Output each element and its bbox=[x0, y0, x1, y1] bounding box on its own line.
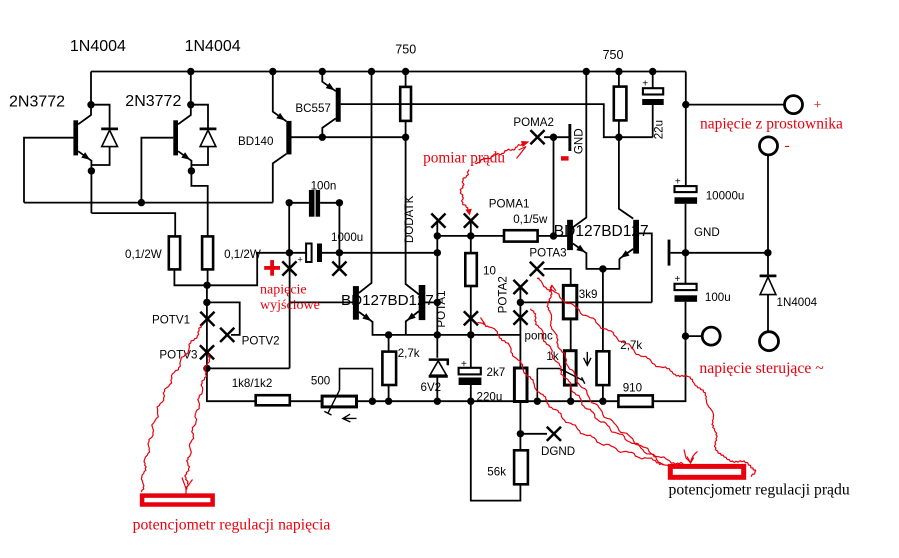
svg-text:BC557: BC557 bbox=[295, 102, 330, 115]
wire Q8 base row to right column bbox=[639, 233, 652, 302]
wire GND row to minus column bbox=[686, 252, 768, 254]
ground symbol GND right bar bbox=[668, 240, 671, 266]
svg-text:+: + bbox=[675, 274, 681, 285]
red curve left 1 bbox=[141, 325, 202, 492]
potentiometer 500 wiper diagonal bbox=[328, 390, 340, 413]
wire 2,7k left leads bbox=[388, 335, 390, 401]
junction dot bottom bus at 220u bbox=[467, 398, 474, 405]
wire 100n right loop bbox=[320, 203, 339, 269]
wire 1k wiper diagonal bbox=[537, 369, 583, 381]
svg-text:POTA2: POTA2 bbox=[497, 276, 510, 313]
wire 10000u bottom lead bbox=[685, 204, 687, 253]
transistor Q5 BD127 pair1 left bar bbox=[353, 286, 359, 320]
wire POMA2 column down bbox=[553, 137, 555, 236]
wire output plus column vertical bbox=[289, 253, 291, 369]
node 100n left bbox=[286, 199, 293, 206]
svg-text:2,7k: 2,7k bbox=[398, 347, 420, 360]
svg-text:pomiar prądu: pomiar prądu bbox=[423, 149, 505, 166]
wire 750 left leads bbox=[405, 72, 407, 138]
potentiometer symbol red rect right bbox=[670, 466, 743, 477]
svg-text:+: + bbox=[298, 255, 303, 265]
terminal X POTA3 bbox=[530, 262, 544, 276]
wire output row y253 bbox=[289, 252, 437, 254]
svg-text:1000u: 1000u bbox=[331, 231, 363, 244]
resistor 2,7k left bbox=[382, 352, 396, 385]
red curve right 1 bbox=[483, 324, 664, 465]
svg-text:BD140: BD140 bbox=[238, 135, 273, 148]
terminal X POTA2 bbox=[513, 280, 527, 294]
wire bottom bus bbox=[357, 400, 619, 402]
node POTV bottom bbox=[203, 365, 210, 372]
svg-text:+: + bbox=[814, 98, 822, 113]
node 750 left bottom bbox=[402, 134, 409, 141]
wire base bus y203 bbox=[24, 202, 273, 204]
wire Q3 BD140 collector bbox=[273, 154, 287, 203]
diode D1 1N4004 bbox=[101, 128, 118, 131]
wire Q2 base bbox=[141, 138, 173, 203]
junction dot DODATK at base row bbox=[434, 299, 441, 306]
svg-text:POTV3: POTV3 bbox=[159, 349, 197, 362]
capacitor 22u bbox=[643, 88, 663, 94]
svg-text:DODATK: DODATK bbox=[403, 195, 416, 243]
resistor 0,1/2W left bbox=[169, 236, 180, 269]
wire POTV column bbox=[206, 285, 208, 368]
transistor Q2 2N3772 collector wire bbox=[178, 72, 191, 125]
wire 2k7 bottom column bbox=[519, 402, 521, 451]
red curve right 1b from 3k9 bbox=[547, 285, 683, 464]
svg-text:1N4004: 1N4004 bbox=[70, 38, 126, 55]
red plus big output bbox=[264, 266, 280, 270]
wire vertical bus to BD127 pair2 left collector bbox=[573, 72, 586, 228]
wire GND bar to node bbox=[670, 252, 685, 254]
node collector Q1 bbox=[87, 101, 94, 108]
node GND right bbox=[682, 249, 689, 256]
node emitter pair2 bbox=[599, 265, 606, 272]
terminal X POTV2 bbox=[220, 328, 234, 342]
svg-text:1N4004: 1N4004 bbox=[777, 296, 818, 309]
resistor 2k7 bbox=[514, 368, 527, 402]
junction dot emitter bus at 2,7k left bbox=[385, 331, 392, 338]
wire 1k wiper to bottom bus bbox=[536, 369, 538, 402]
svg-text:10: 10 bbox=[483, 265, 496, 278]
node 1000u right bbox=[336, 249, 343, 256]
terminal X POTV1 bbox=[200, 312, 214, 326]
svg-text:potencjometr regulacji napięci: potencjometr regulacji napięcia bbox=[133, 516, 331, 533]
svg-text:GND: GND bbox=[694, 226, 720, 239]
wire POTA2 column bbox=[519, 287, 521, 368]
terminal circle minus napiecie z prostownika bbox=[760, 137, 778, 155]
diode D2 bottom lead wire bbox=[191, 147, 208, 165]
node minus column at GND row bbox=[764, 249, 771, 256]
node base BD127 pair2 left bbox=[550, 232, 557, 239]
diode D1 bottom lead wire bbox=[91, 147, 109, 165]
resistor 0,1/2W right bbox=[202, 236, 213, 269]
terminal X POMA2 bbox=[530, 130, 544, 144]
svg-text:750: 750 bbox=[603, 48, 624, 62]
junction dot bus above Q2 bbox=[187, 68, 194, 75]
svg-text:pomc: pomc bbox=[525, 330, 554, 343]
red curve left 2 bbox=[185, 354, 210, 490]
terminal X output plus bbox=[282, 261, 296, 275]
svg-text:napięcie sterujące ~: napięcie sterujące ~ bbox=[699, 360, 824, 377]
junction dot bottom bus at 1k wiper bbox=[534, 398, 541, 405]
resistor 750 left bbox=[400, 87, 411, 121]
arrow down beside 1k bbox=[584, 352, 591, 365]
svg-text:500: 500 bbox=[311, 375, 330, 388]
transistor Q4 BC557 bar bbox=[336, 88, 341, 122]
potentiometer 500 body bbox=[322, 396, 356, 407]
junction dot 750 right bottom bbox=[615, 134, 622, 141]
junction dot DODATK at POMA1 row bbox=[434, 232, 441, 239]
svg-text:potencjometr regulacji prądu: potencjometr regulacji prądu bbox=[669, 482, 850, 499]
node napiecie sterujace bbox=[682, 332, 689, 339]
capacitor 100n bbox=[309, 190, 315, 217]
svg-text:GND: GND bbox=[573, 128, 586, 154]
ground symbol GND left bar bbox=[568, 124, 571, 151]
terminal circle plus napiecie z prostownika bbox=[785, 96, 803, 114]
zener diode 6V2 bbox=[429, 360, 448, 366]
svg-text:2N3772: 2N3772 bbox=[9, 94, 65, 111]
diode D3 1N4004 bbox=[760, 275, 777, 278]
wire diode to circle B bbox=[767, 295, 769, 332]
wire Q2 emitter column and jog bbox=[191, 160, 207, 236]
svg-text:+: + bbox=[461, 359, 467, 370]
transistor Q4 BC557 emitter wire with arrow bbox=[322, 72, 336, 92]
red minus mark at GND left bbox=[561, 156, 569, 160]
svg-text:0,1/2W: 0,1/2W bbox=[224, 248, 261, 261]
node POTV top bbox=[203, 299, 210, 306]
wire 910 right to sterujace node bbox=[653, 302, 686, 401]
svg-text:0,1/5w: 0,1/5w bbox=[513, 213, 548, 226]
svg-text:2k7: 2k7 bbox=[487, 366, 506, 379]
terminal X DODATK bbox=[431, 214, 445, 228]
wire to circle A bbox=[686, 335, 703, 337]
transistor Q2 2N3772 bar bbox=[173, 120, 178, 155]
wire Q1 base to left rail bbox=[24, 138, 73, 203]
node emitter Q2 bbox=[188, 167, 195, 174]
svg-text:750: 750 bbox=[395, 43, 416, 57]
wire Q6 emitter vertical bbox=[405, 321, 407, 335]
svg-text:2N3772: 2N3772 bbox=[125, 93, 181, 110]
junction dot DODATK at output row bbox=[434, 249, 441, 256]
junction dot bus corner node bbox=[682, 101, 689, 108]
wire DODATK column upper bbox=[436, 221, 438, 358]
capacitor 1000u bbox=[306, 244, 312, 263]
wire base BD127 pair1 right bbox=[425, 301, 438, 303]
wire POMA2 to GND symbol bbox=[544, 136, 570, 138]
junction dot base bus / Q2 base bbox=[138, 199, 145, 206]
transistor Q3 BD140 emitter wire with arrow bbox=[273, 72, 287, 122]
transistor Q1 emitter wire with arrow bbox=[78, 151, 91, 161]
wire Q5 emitter with arrow bbox=[359, 312, 373, 322]
node 100n right bbox=[336, 199, 343, 206]
svg-text:3k9: 3k9 bbox=[579, 288, 598, 301]
transistor Q8 BD127 pair2 right bar bbox=[633, 220, 639, 254]
junction dot bus above 750 left bbox=[402, 68, 409, 75]
resistor 0,1/5w bbox=[504, 230, 538, 241]
red curve right 3 bbox=[537, 278, 756, 476]
junction dot bottom bus at 500 wiper bbox=[369, 398, 376, 405]
potentiometer symbol red rect left bbox=[142, 496, 213, 505]
terminal X POMA1 bbox=[464, 214, 478, 228]
node emitter Q1 bbox=[88, 167, 95, 174]
terminal X POTV3 bbox=[200, 345, 214, 359]
terminal X DGND bbox=[547, 427, 561, 441]
transistor Q3 BD140 bar bbox=[286, 121, 291, 154]
wire Q7 emitter with arrow bbox=[573, 244, 587, 254]
svg-text:1k8/1k2: 1k8/1k2 bbox=[232, 377, 273, 390]
junction dot bus at long vertical bbox=[368, 68, 375, 75]
terminal circle napiecie sterujace A bbox=[702, 327, 720, 345]
terminal X pomc bbox=[513, 311, 527, 325]
wire POMA1 column upper bbox=[470, 221, 472, 254]
svg-text:0,1/2W: 0,1/2W bbox=[125, 248, 162, 261]
junction dot bottom bus at 1k pot bbox=[567, 398, 574, 405]
diode D1 1N4004 top lead wire bbox=[91, 105, 110, 128]
terminal X POTA1 bbox=[464, 311, 478, 325]
junction dot bus above 750 right bbox=[615, 68, 622, 75]
red arrow to DODATK X bbox=[460, 169, 468, 210]
diode D2 1N4004 bbox=[200, 128, 217, 131]
resistor 750 right bbox=[614, 87, 627, 121]
junction dot bus above 22u bbox=[649, 68, 656, 75]
wire Q1 emitter column bbox=[90, 160, 92, 213]
wire POTV bottom row to output column bbox=[207, 367, 290, 369]
wire 750 right leads bbox=[618, 72, 620, 138]
junction dot bus at BD127 pair2 collector bbox=[583, 68, 590, 75]
junction dot DODATK at emitter bus bbox=[434, 331, 441, 338]
capacitor 220u bbox=[459, 368, 481, 375]
wire BC557 base crossing 750 body bbox=[399, 103, 413, 105]
wire 0,1/5w right lead bbox=[538, 235, 554, 237]
junction dot bottom bus at 2,7k left bbox=[385, 398, 392, 405]
node collector Q2 bbox=[187, 101, 194, 108]
transistor Q6 BD127 pair1 right bar bbox=[419, 285, 426, 320]
svg-text:56k: 56k bbox=[487, 466, 506, 479]
junction dot POMA1 row bbox=[467, 232, 474, 239]
wire 750 right node down to BD127 pair2 right collector bbox=[619, 137, 633, 218]
wire zener bottom lead bbox=[436, 376, 438, 401]
wire 100n left loop bbox=[289, 203, 309, 253]
svg-text:POTA3: POTA3 bbox=[529, 247, 566, 260]
svg-text:1N4004: 1N4004 bbox=[185, 38, 241, 55]
transistor Q1 2N3772 collector wire bbox=[78, 72, 91, 125]
wire 1k bottom lead bbox=[570, 385, 572, 401]
node resistor bottom junction bbox=[203, 282, 210, 289]
wire base BD127 pair2 left bbox=[554, 235, 568, 237]
wire BC557 base long row bbox=[341, 104, 653, 137]
junction dot bottom bus at zener bbox=[434, 398, 441, 405]
svg-text:910: 910 bbox=[623, 382, 642, 395]
wire 220u bottom loop to 56k bottom bbox=[471, 401, 521, 500]
svg-text:POTV1: POTV1 bbox=[152, 313, 190, 326]
node BC557 collector / BD140 base bbox=[319, 134, 326, 141]
wire POTV column to bottom bus bbox=[207, 368, 256, 401]
wire emitter bus pair2 bbox=[586, 252, 619, 269]
resistor 3k9 bbox=[563, 285, 577, 319]
wire to DGND terminal bbox=[520, 433, 547, 435]
svg-text:POTA1: POTA1 bbox=[435, 290, 448, 327]
wire minus column bbox=[767, 155, 769, 275]
wire POTA2 row to BD127 pair2 right base bbox=[520, 301, 651, 303]
capacitor 100u bbox=[675, 284, 697, 290]
junction dot bus above BC557 bbox=[319, 68, 326, 75]
transistor Q7 BD127 pair2 left bar bbox=[567, 220, 573, 250]
svg-text:wyjściowe: wyjściowe bbox=[260, 298, 320, 313]
wire Q1 emitter jog to resistor bbox=[91, 213, 175, 236]
svg-text:POMA1: POMA1 bbox=[489, 198, 530, 211]
terminal X output minus bbox=[332, 262, 346, 276]
node output plus bbox=[286, 249, 293, 256]
potentiometer 1k body bbox=[564, 351, 576, 385]
wire 100u top lead bbox=[685, 253, 687, 284]
svg-text:napięcie z prostownika: napięcie z prostownika bbox=[700, 115, 843, 132]
wire bus right corner down to 10000u bbox=[685, 72, 687, 187]
wire base BD127 pair1 left bbox=[290, 301, 356, 303]
wire Q8 emitter with arrow bbox=[619, 249, 633, 259]
svg-text:220u: 220u bbox=[477, 390, 503, 403]
wire node to output plus column bbox=[207, 253, 289, 285]
svg-text:2,7k: 2,7k bbox=[620, 339, 642, 352]
svg-text:22u: 22u bbox=[652, 120, 665, 139]
svg-text:+: + bbox=[642, 79, 648, 90]
svg-text:+: + bbox=[675, 176, 681, 187]
wire Q5 emitter corner to emitter bus bbox=[373, 321, 521, 335]
red small arrow right rect bbox=[684, 450, 691, 463]
resistor 910 bbox=[618, 395, 652, 407]
svg-text:POTV2: POTV2 bbox=[242, 335, 280, 348]
wire POMA1 row bbox=[437, 235, 504, 237]
transistor Q1 2N3772 bar bbox=[73, 120, 78, 155]
transistor Q2 emitter wire with arrow bbox=[178, 151, 191, 161]
red arrow to POMA2 bbox=[475, 145, 525, 164]
wire 2,7k right leads bbox=[602, 269, 604, 401]
resistor 10 bbox=[465, 253, 477, 286]
wire resistor bottoms join bbox=[174, 269, 207, 285]
wire POTA2 row crossing 3k9 body bbox=[562, 301, 579, 303]
wire POTV2 branch loop bbox=[207, 302, 240, 335]
wire 500 wiper to bottom bus bbox=[340, 369, 373, 402]
junction dot bottom bus at 2,7k right bbox=[599, 398, 606, 405]
resistor 1k8/1k2 bbox=[256, 395, 290, 405]
top power bus wire bbox=[91, 71, 686, 73]
svg-text:POMA2: POMA2 bbox=[513, 116, 554, 129]
diode D2 1N4004 top lead wire bbox=[191, 105, 208, 128]
terminal circle napiecie sterujace B bbox=[760, 332, 779, 351]
resistor 2,7k right bbox=[597, 351, 610, 385]
node POMA2 bbox=[550, 134, 557, 141]
resistor 56k bbox=[514, 450, 528, 484]
svg-text:-: - bbox=[785, 138, 790, 154]
wire 1k8 to 500 pot bbox=[290, 400, 322, 402]
wire Q4 BC557 collector bbox=[322, 118, 336, 137]
wire 3k9 to 1k pot bbox=[570, 319, 572, 351]
svg-text:DGND: DGND bbox=[541, 445, 575, 458]
wire Q6 emitter with arrow bbox=[406, 311, 419, 321]
wire 10 bottom to bus bbox=[470, 286, 472, 335]
wire 220u leads bbox=[470, 335, 472, 401]
svg-text:100n: 100n bbox=[311, 179, 337, 192]
svg-text:napięcie: napięcie bbox=[260, 282, 307, 297]
wire 22u leads bbox=[652, 72, 654, 138]
svg-text:100u: 100u bbox=[705, 291, 731, 304]
red small arrow left rect bbox=[182, 478, 193, 500]
wire long vertical to BD127 pair1 left collector bbox=[359, 72, 372, 293]
red curve right 2 bbox=[531, 309, 670, 468]
wire vertical 750 to BD127 pair1 right collector bbox=[406, 137, 420, 294]
wire POTA3 to 3k9 top bbox=[544, 269, 571, 286]
wire Q3 BD140 base row bbox=[292, 136, 406, 138]
junction dot bus above BD140 bbox=[269, 68, 276, 75]
junction dot 220u top at emitter bus bbox=[467, 331, 474, 338]
node DGND junction bbox=[517, 430, 524, 437]
arrow left under 500 pot bbox=[343, 414, 357, 422]
node POTA2 bbox=[517, 299, 524, 306]
capacitor 10000u bbox=[675, 186, 697, 192]
svg-text:10000u: 10000u bbox=[706, 190, 745, 203]
wire to + terminal napiecie z prostownika bbox=[686, 104, 785, 106]
